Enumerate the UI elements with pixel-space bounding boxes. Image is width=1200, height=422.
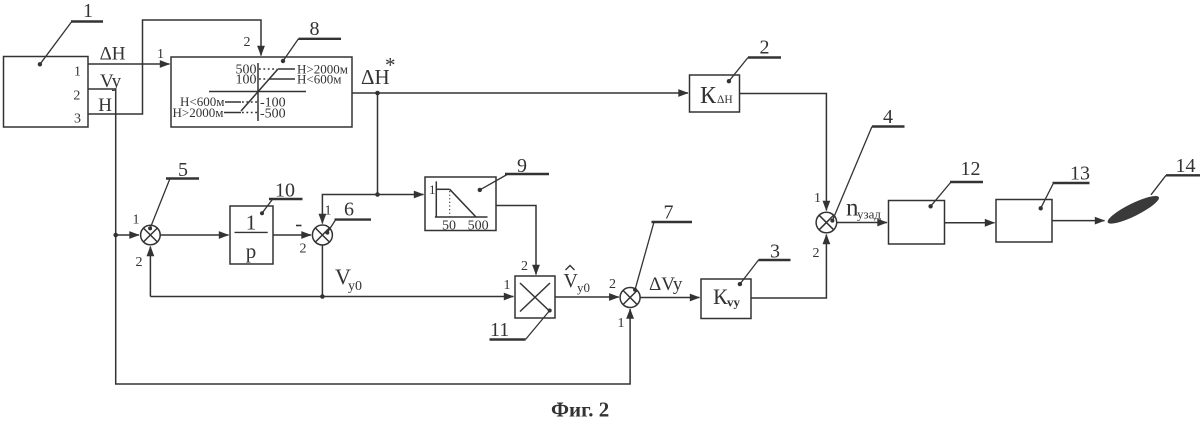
svg-text:p: p <box>246 239 257 263</box>
svg-text:1: 1 <box>325 204 332 219</box>
svg-text:1: 1 <box>157 47 164 62</box>
svg-text:К: К <box>700 83 717 109</box>
svg-text:13: 13 <box>1070 163 1090 185</box>
svg-text:1: 1 <box>814 191 821 206</box>
svg-text:8: 8 <box>310 18 320 40</box>
svg-text:1: 1 <box>74 65 81 80</box>
svg-text:y0: y0 <box>348 279 362 294</box>
svg-text:3: 3 <box>770 241 780 263</box>
svg-text:2: 2 <box>300 242 307 257</box>
svg-text:2: 2 <box>609 277 616 292</box>
svg-text:2: 2 <box>73 89 80 104</box>
svg-text:ΔVy: ΔVy <box>649 274 683 295</box>
svg-text:vy: vy <box>727 295 741 310</box>
svg-text:6: 6 <box>344 199 354 221</box>
svg-text:7: 7 <box>664 202 674 224</box>
svg-text:*: * <box>385 53 396 77</box>
svg-text:1: 1 <box>429 182 436 197</box>
svg-text:4: 4 <box>883 106 893 128</box>
svg-text:ΔН: ΔН <box>717 94 733 106</box>
svg-text:Фиг. 2: Фиг. 2 <box>551 398 609 422</box>
svg-text:H>2000м: H>2000м <box>173 105 224 120</box>
svg-text:2: 2 <box>813 246 820 261</box>
svg-text:H: H <box>98 95 112 116</box>
svg-text:1: 1 <box>618 316 625 331</box>
svg-text:12: 12 <box>961 158 981 180</box>
svg-text:1: 1 <box>504 278 511 293</box>
svg-text:50: 50 <box>442 219 456 234</box>
svg-text:1: 1 <box>133 213 140 228</box>
svg-text:2: 2 <box>136 255 143 270</box>
svg-text:10: 10 <box>275 180 295 202</box>
svg-text:3: 3 <box>74 111 81 126</box>
svg-text:500: 500 <box>468 219 489 234</box>
svg-text:2: 2 <box>521 259 528 274</box>
svg-text:H<600м: H<600м <box>297 72 341 87</box>
svg-text:11: 11 <box>490 319 509 341</box>
svg-text:y0: y0 <box>577 280 590 295</box>
svg-text:1: 1 <box>83 0 93 22</box>
svg-text:1: 1 <box>246 211 257 235</box>
svg-text:узад: узад <box>857 207 881 222</box>
svg-text:-500: -500 <box>260 107 286 122</box>
svg-text:ΔH: ΔH <box>100 44 126 65</box>
svg-text:2: 2 <box>760 37 770 59</box>
svg-text:14: 14 <box>1176 155 1196 177</box>
svg-text:Vy: Vy <box>100 71 122 92</box>
svg-text:100: 100 <box>236 73 257 88</box>
svg-text:5: 5 <box>178 159 188 181</box>
svg-text:К: К <box>713 284 728 309</box>
svg-text:9: 9 <box>517 155 527 177</box>
svg-text:2: 2 <box>244 35 251 50</box>
